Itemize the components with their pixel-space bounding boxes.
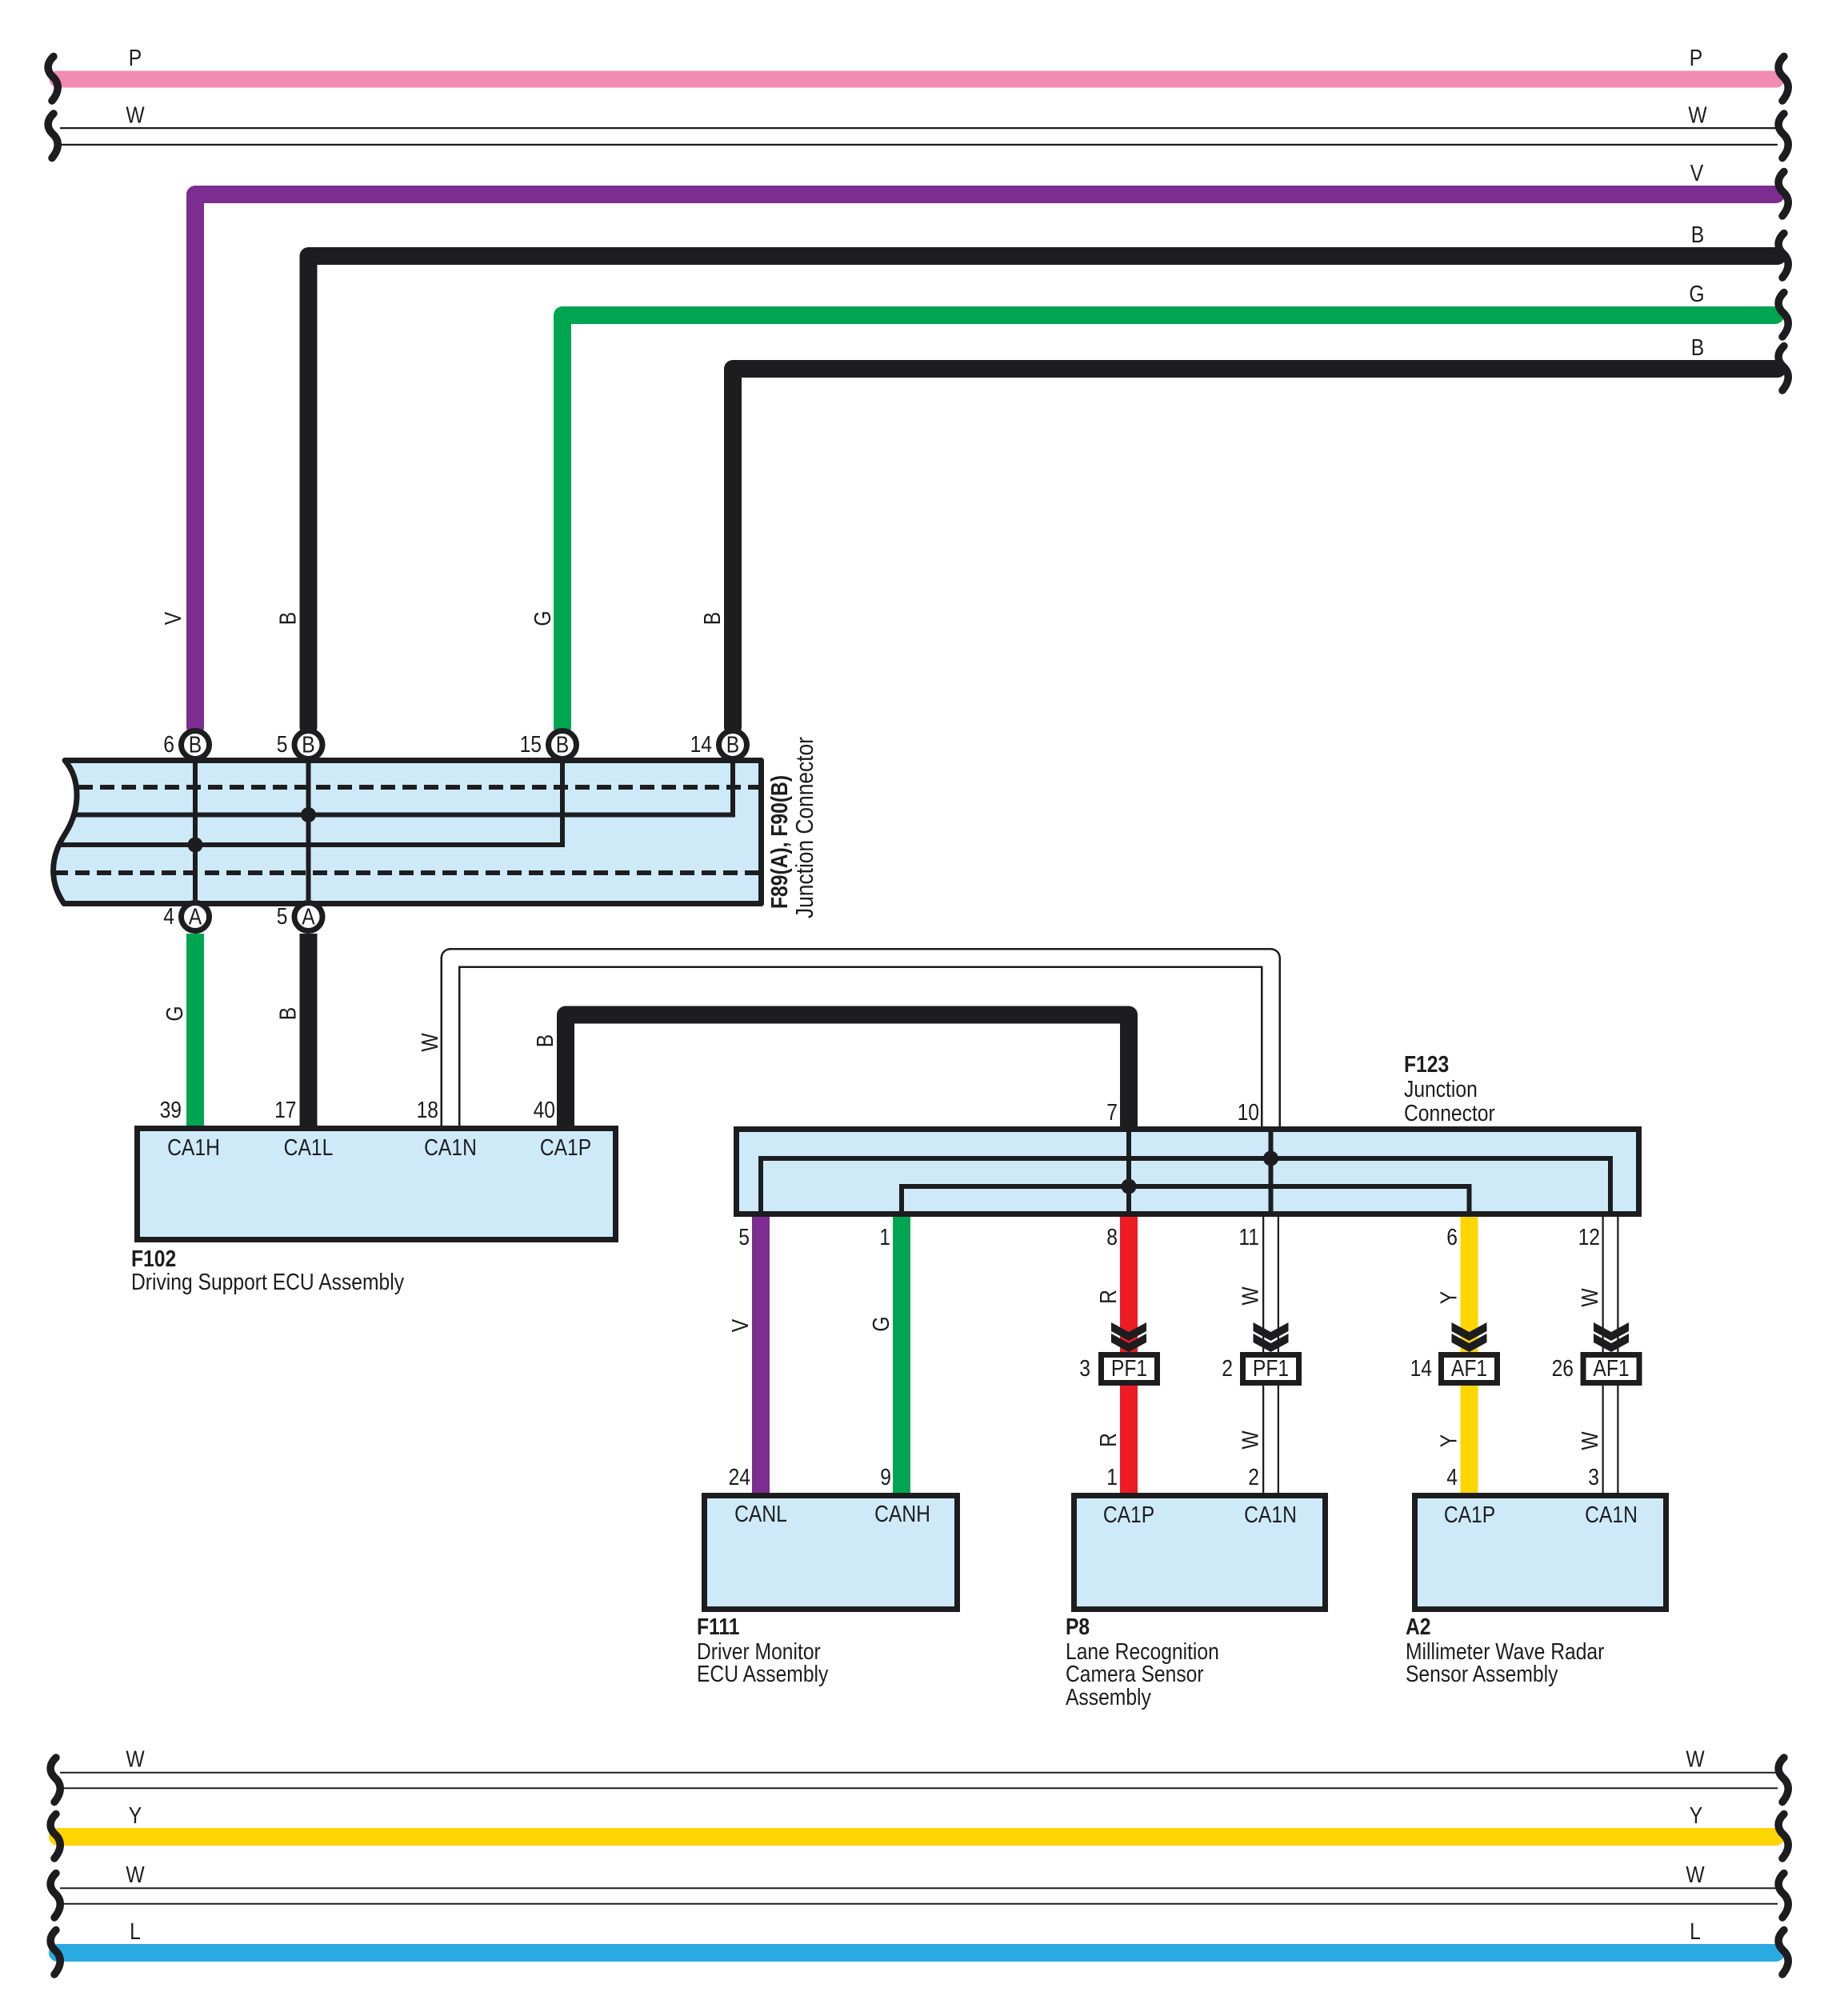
F123 junction connector box (737, 1130, 1639, 1214)
svg-text:18: 18 (417, 1097, 438, 1122)
bottom wire W1 (60, 1772, 1778, 1790)
svg-text:R: R (1095, 1433, 1121, 1447)
svg-text:A: A (302, 904, 314, 930)
wire W (white, top) (60, 127, 1778, 146)
svg-text:A: A (189, 904, 202, 930)
squiggle W left (48, 114, 58, 158)
svg-text:B: B (302, 732, 314, 758)
svg-text:2: 2 (1248, 1464, 1259, 1490)
wire W CA1N F102 to F123 pin 10 (450, 958, 1271, 1127)
svg-text:F123: F123 (1404, 1051, 1449, 1077)
svg-text:CANL: CANL (734, 1501, 787, 1526)
svg-text:CA1P: CA1P (1444, 1502, 1495, 1527)
junction dot bus1 (1263, 1151, 1278, 1166)
svg-text:W: W (1577, 1431, 1602, 1450)
svg-text:Assembly: Assembly (1066, 1684, 1151, 1710)
svg-text:L: L (1690, 1918, 1701, 1944)
svg-text:B: B (1691, 222, 1704, 247)
svg-text:CA1N: CA1N (1585, 1502, 1638, 1527)
svg-text:F111: F111 (697, 1614, 739, 1639)
svg-text:B: B (275, 1007, 301, 1020)
F111 Driver Monitor ECU Assembly box (705, 1496, 958, 1610)
squiggle G right (1778, 293, 1788, 338)
svg-text:G: G (868, 1316, 894, 1331)
svg-text:PF1: PF1 (1253, 1355, 1289, 1381)
svg-text:40: 40 (534, 1097, 555, 1122)
svg-text:4: 4 (163, 903, 174, 929)
svg-text:8: 8 (1106, 1224, 1118, 1250)
bottom wire Y (58, 1828, 1776, 1846)
svg-text:P: P (1690, 45, 1702, 70)
svg-text:B: B (189, 732, 202, 758)
P8 Lane Recognition Camera Sensor Assembly box (1074, 1496, 1326, 1610)
svg-text:Y: Y (1436, 1291, 1462, 1304)
bottom wire W2 (60, 1887, 1778, 1905)
wire G (green) from right edge to junction pin 15B (562, 315, 1775, 727)
svg-text:W: W (1577, 1288, 1602, 1307)
svg-text:P8: P8 (1066, 1614, 1090, 1639)
svg-text:B: B (699, 612, 725, 625)
svg-text:A2: A2 (1406, 1614, 1431, 1639)
junction dot on bus2 (188, 838, 203, 853)
svg-text:Sensor Assembly: Sensor Assembly (1406, 1661, 1558, 1686)
svg-text:B: B (1691, 334, 1704, 360)
svg-text:3: 3 (1079, 1355, 1090, 1381)
squiggle W right (1778, 114, 1788, 158)
svg-text:W: W (1686, 1862, 1705, 1887)
svg-text:W: W (126, 1862, 145, 1887)
F123 internal wire pin10-pin11 (1269, 1129, 1274, 1214)
svg-text:5: 5 (277, 731, 288, 757)
svg-text:V: V (160, 612, 186, 625)
svg-text:Camera Sensor: Camera Sensor (1066, 1661, 1204, 1686)
squiggle P left (48, 57, 58, 102)
F123 internal wire pin7-pin8 (1126, 1129, 1131, 1214)
connector AF1 (pin 14) (1442, 1355, 1498, 1383)
svg-text:G: G (530, 610, 555, 626)
svg-text:PF1: PF1 (1111, 1355, 1147, 1381)
svg-text:CA1H: CA1H (167, 1134, 220, 1160)
F89 dashed bus 1 (78, 785, 758, 790)
svg-text:CA1P: CA1P (540, 1134, 591, 1160)
connector PF1 (pin 2) (1243, 1355, 1299, 1383)
F89 internal wire pin6-pin4 (193, 761, 198, 900)
pin 15 B terminal (549, 731, 577, 759)
pin 4 A terminal (182, 903, 210, 931)
wire R F123 pin8 to P8 pin1 (1120, 1217, 1138, 1493)
svg-text:Driving Support ECU Assembly: Driving Support ECU Assembly (131, 1269, 405, 1294)
wire B2 (black) from right edge to junction pin 14B (733, 369, 1778, 727)
svg-text:4: 4 (1446, 1464, 1458, 1490)
svg-text:12: 12 (1578, 1224, 1600, 1250)
svg-text:Junction: Junction (1404, 1076, 1478, 1102)
svg-text:15: 15 (520, 731, 542, 757)
A2 Millimeter Wave Radar Sensor Assembly box (1415, 1496, 1666, 1610)
F123 internal bus 2 (902, 1186, 1470, 1214)
junction dot on bus1 (301, 807, 316, 822)
svg-text:1: 1 (1106, 1464, 1118, 1490)
svg-text:ECU Assembly: ECU Assembly (697, 1661, 829, 1686)
pin 5 B terminal (294, 731, 322, 759)
svg-text:F102: F102 (131, 1246, 176, 1271)
junction dot bus2 (1122, 1179, 1137, 1194)
svg-text:24: 24 (729, 1464, 750, 1490)
pin 5 A terminal (294, 903, 322, 931)
connector AF1 (pin 26) (1583, 1355, 1639, 1383)
svg-text:V: V (727, 1319, 753, 1332)
svg-text:7: 7 (1106, 1099, 1118, 1125)
svg-text:14: 14 (1410, 1355, 1432, 1381)
svg-text:W: W (1238, 1430, 1263, 1450)
wire G F123 pin1 to F111 pin9 (893, 1217, 910, 1493)
wire W F123 pin12 to A2 pin3 (1602, 1217, 1619, 1493)
svg-text:14: 14 (690, 731, 712, 757)
squiggle P right (1778, 57, 1788, 102)
wire B junction to F102 pin 17 (300, 934, 318, 1126)
F89 internal wire pin5-pin5 (306, 761, 311, 900)
wire Y F123 pin6 to A2 pin4 (1461, 1217, 1478, 1493)
svg-text:5: 5 (277, 903, 288, 929)
svg-text:5: 5 (738, 1224, 750, 1250)
svg-text:2: 2 (1222, 1355, 1233, 1381)
svg-text:W: W (126, 102, 145, 128)
pin 14 B terminal (719, 731, 747, 759)
svg-text:Y: Y (129, 1802, 142, 1828)
svg-text:3: 3 (1588, 1464, 1599, 1490)
svg-text:B: B (556, 732, 569, 758)
svg-text:G: G (162, 1006, 187, 1021)
wire B (black) from right edge to junction pin 5B (309, 256, 1778, 727)
svg-text:Y: Y (1436, 1434, 1462, 1447)
svg-text:10: 10 (1238, 1099, 1259, 1125)
svg-text:CA1N: CA1N (1244, 1502, 1297, 1527)
svg-text:W: W (1238, 1286, 1263, 1306)
svg-text:1: 1 (879, 1224, 890, 1250)
svg-text:W: W (1686, 1746, 1705, 1772)
wire V F123 pin5 to F111 pin24 (752, 1217, 770, 1493)
svg-text:6: 6 (163, 731, 174, 757)
F102 Driving Support ECU Assembly box (138, 1129, 616, 1240)
svg-text:CA1L: CA1L (284, 1134, 334, 1160)
svg-text:B: B (726, 732, 739, 758)
bottom wire L (58, 1944, 1776, 1962)
squiggle B right (1778, 234, 1788, 278)
svg-text:17: 17 (274, 1097, 296, 1122)
svg-text:AF1: AF1 (1593, 1355, 1629, 1381)
svg-text:B: B (275, 612, 301, 625)
svg-text:9: 9 (880, 1464, 891, 1490)
F123 internal bus 1 (761, 1158, 1610, 1214)
svg-text:Junction Connector: Junction Connector (791, 737, 818, 918)
svg-text:CA1P: CA1P (1103, 1502, 1154, 1527)
svg-text:39: 39 (160, 1097, 182, 1122)
F89 dashed bus 2 (54, 870, 758, 875)
svg-text:R: R (1095, 1290, 1121, 1304)
svg-text:11: 11 (1238, 1224, 1259, 1250)
squiggle V right (1778, 172, 1788, 217)
wire W F123 pin11 to P8 pin2 (1262, 1217, 1279, 1493)
F89 solid bus line to pin 15 (59, 761, 562, 845)
F89 solid bus line to pin 14 (76, 761, 733, 815)
svg-text:W: W (417, 1033, 442, 1052)
wire P (pink, top) (58, 71, 1776, 88)
svg-text:V: V (1690, 160, 1703, 186)
svg-text:W: W (126, 1746, 145, 1772)
svg-text:CA1N: CA1N (424, 1134, 477, 1160)
squiggle B2 right (1778, 346, 1788, 391)
svg-text:26: 26 (1552, 1355, 1574, 1381)
wire V (violet) from right edge to junction pin 6B (195, 194, 1776, 727)
svg-text:Y: Y (1690, 1802, 1702, 1828)
wire G junction to F102 pin 39 (186, 934, 204, 1126)
connector PF1 (pin 3) (1102, 1355, 1158, 1383)
svg-text:P: P (129, 45, 142, 70)
junction connector F89(A),F90(B) body (54, 761, 762, 904)
svg-text:AF1: AF1 (1451, 1355, 1487, 1381)
svg-text:F89(A), F90(B): F89(A), F90(B) (766, 775, 792, 909)
svg-text:6: 6 (1446, 1224, 1458, 1250)
pin 6 B terminal (182, 731, 210, 759)
svg-text:B: B (532, 1034, 558, 1047)
wire B CA1P F102 to F123 pin 7 (566, 1015, 1129, 1127)
svg-text:Connector: Connector (1404, 1100, 1495, 1126)
svg-text:W: W (1688, 102, 1707, 128)
svg-text:L: L (130, 1918, 141, 1944)
svg-text:G: G (1689, 281, 1704, 306)
svg-text:CANH: CANH (874, 1501, 930, 1526)
chevron arrows into PF1 / AF1 (1111, 1322, 1146, 1352)
